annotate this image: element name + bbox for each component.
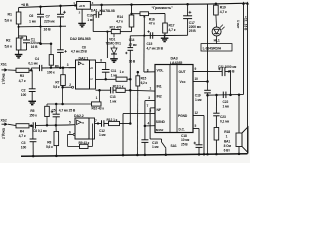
svg-text:VOL: VOL <box>157 68 165 72</box>
plus mark C1 <box>21 37 24 39</box>
svg-text:150 к: 150 к <box>29 113 37 117</box>
resistor R2 <box>16 38 21 50</box>
svg-text:100: 100 <box>21 93 27 97</box>
wire ground bus <box>21 154 248 157</box>
wire C2 top lead <box>31 70 33 89</box>
junction C23 top <box>215 94 218 97</box>
svg-text:R9 43 к: R9 43 к <box>79 141 90 145</box>
svg-text:1 мк: 1 мк <box>29 20 36 24</box>
svg-text:C11: C11 <box>111 69 117 73</box>
resistor R14 <box>129 15 134 27</box>
svg-text:Вход 1: Вход 1 <box>2 74 6 85</box>
resistor R8 <box>54 132 59 146</box>
wire R14 bottom lead <box>131 27 133 32</box>
resistor R6 <box>49 55 53 66</box>
wire C1 bottom lead <box>26 43 28 50</box>
svg-text:C2: C2 <box>21 89 25 93</box>
wire pin1 output DA2.1 <box>96 89 111 91</box>
junction C5 lower wire <box>55 124 58 127</box>
wire +12V rail right <box>208 2 248 5</box>
svg-text:47 к: 47 к <box>149 22 155 26</box>
capacitor C1 <box>23 39 30 41</box>
svg-text:TZMC-5V1: TZMC-5V1 <box>106 42 122 46</box>
wire R9 right <box>88 145 93 147</box>
wire C10 right lead <box>99 14 102 16</box>
wire pin6 down <box>67 135 69 147</box>
IC inner line 1 <box>169 65 171 133</box>
junction pin2 node <box>61 86 64 89</box>
op-amp DA2.1 symbol <box>78 62 81 65</box>
wire terminal 1 column <box>243 3 245 94</box>
capacitor C2 <box>29 88 36 90</box>
wire pin2 column down <box>62 87 64 104</box>
inverting input circle DA2.2 <box>73 134 75 136</box>
resistor on row A <box>116 77 127 81</box>
svg-text:16 В: 16 В <box>31 45 38 49</box>
wire C10 right lead down <box>101 5 103 15</box>
svg-text:R4: R4 <box>20 130 24 134</box>
capacitor C23 <box>213 112 219 114</box>
svg-text:SGND: SGND <box>156 120 166 124</box>
svg-text:6 Вт: 6 Вт <box>224 148 231 152</box>
speaker BA1 <box>236 133 242 147</box>
wire SGND stub <box>145 125 155 127</box>
wire C23 to R18 <box>215 116 217 128</box>
capacitor C11 <box>102 69 110 71</box>
resistor R9 <box>80 144 89 148</box>
op-amp DA2.1 right column <box>90 60 96 89</box>
wire NF down to bus <box>122 114 124 156</box>
wire pot right to R17 <box>149 13 166 15</box>
junction R6 top <box>50 43 53 46</box>
wire bias feedback row <box>47 103 92 105</box>
svg-text:4,7 мк 16 В: 4,7 мк 16 В <box>147 46 164 50</box>
wire pot wiper down <box>143 16 145 36</box>
IC DA3 LA4285 box <box>155 65 193 133</box>
wire C11 bottom lead <box>105 72 107 79</box>
junction SGND on IN2 column <box>144 125 147 128</box>
wire VD1 top lead <box>113 34 115 38</box>
junction pot feed <box>130 13 132 15</box>
capacitor C6 <box>37 13 44 15</box>
svg-text:R10 43 к: R10 43 к <box>92 107 105 111</box>
wire pin7 to SA1 <box>150 138 161 140</box>
wire pin5 stub DA2.2 <box>68 124 76 126</box>
wire bias column upper <box>59 26 61 50</box>
wire R7 bottom lead <box>62 86 64 88</box>
wire C7 top lead <box>60 6 62 14</box>
svg-text:4,7 к: 4,7 к <box>19 79 26 83</box>
wire pin8 stub DA2.1 <box>96 61 106 63</box>
wire down to zobel row <box>230 72 232 96</box>
op-amp DA2.2 symbol <box>77 120 82 125</box>
capacitor C3 <box>30 138 37 140</box>
junction mix row C <box>129 122 132 125</box>
wire R6 bottom lead <box>50 65 52 67</box>
wire node up to C4 <box>30 68 32 70</box>
wire bias column mid <box>59 52 61 68</box>
wire C6 top lead <box>40 7 42 15</box>
svg-text:“Громкость”: “Громкость” <box>152 6 174 10</box>
wire C17 top lead <box>187 4 189 16</box>
junction bus C19 <box>206 153 209 156</box>
wire C13 to R13 <box>113 89 116 91</box>
capacitor C13 <box>110 87 112 93</box>
junction bus NF <box>122 154 125 157</box>
wire bias rail <box>19 25 66 28</box>
capacitor C5 <box>53 113 60 115</box>
wire R8 bottom lead <box>55 146 57 156</box>
wire row B to IN1 pin <box>130 89 155 92</box>
wire wiper to VOL <box>143 36 145 72</box>
wire C1 tee <box>19 35 27 37</box>
svg-text:25 В: 25 В <box>189 29 196 33</box>
svg-text:C23: C23 <box>220 115 226 119</box>
wire C21 to down column <box>225 71 231 73</box>
capacitor C8 bias <box>57 49 64 51</box>
junction output DA2.2 <box>97 122 99 124</box>
wire Vcc column <box>207 4 209 81</box>
resistor R17 <box>163 23 168 33</box>
wire R15 to bus <box>136 86 138 155</box>
inverting input circle DA2.1 <box>72 86 74 88</box>
svg-text:C19: C19 <box>195 93 201 97</box>
wire R11 left <box>93 31 111 33</box>
svg-text:1 мк: 1 мк <box>99 133 106 137</box>
junction row A C11 <box>104 78 107 81</box>
wire DC to C18 <box>198 129 200 145</box>
potentiometer R16 <box>140 12 149 16</box>
svg-text:XS1: XS1 <box>1 62 7 66</box>
svg-text:∞: ∞ <box>82 121 85 125</box>
svg-text:5,6 к: 5,6 к <box>46 145 53 149</box>
svg-text:DA2.2: DA2.2 <box>74 114 84 118</box>
wire R18 to bus <box>215 140 217 154</box>
wire NF to left <box>123 112 155 114</box>
wire C19 to bus <box>207 93 209 154</box>
wire VD1 mid lead <box>113 46 115 49</box>
svg-text:R2: R2 <box>6 39 10 43</box>
resistor R4 <box>16 124 29 128</box>
wire speaker feed <box>238 95 240 133</box>
capacitor C7 220uF <box>57 13 64 15</box>
junction C7 bottom <box>59 25 61 27</box>
svg-text:Vcc: Vcc <box>180 80 186 84</box>
wire ground row to C17 <box>165 34 188 36</box>
svg-text:5,6 к: 5,6 к <box>5 19 13 23</box>
junction input node 2 <box>30 124 33 127</box>
svg-text:4,7 к: 4,7 к <box>116 19 123 23</box>
resistor R18 <box>214 128 219 141</box>
wire R17 top lead <box>164 14 166 24</box>
svg-text:1 мк: 1 мк <box>152 145 159 149</box>
svg-text:C6: C6 <box>29 14 33 18</box>
wire mix column lower <box>129 50 131 123</box>
plus mark C14 <box>125 52 127 54</box>
wire IN2 down to C16 <box>144 101 146 140</box>
svg-text:C14: C14 <box>129 38 135 42</box>
junction bus C3 <box>32 155 35 158</box>
junction zobel row <box>229 94 232 97</box>
wire C5 to input rail 2 <box>55 117 57 125</box>
wire row A to mix node <box>127 78 130 80</box>
svg-text:5,6 к: 5,6 к <box>5 45 13 49</box>
capacitor C4 input <box>39 65 41 71</box>
resistor R19 <box>214 5 219 15</box>
junction C6 bottom <box>39 25 41 27</box>
svg-text:IN2: IN2 <box>157 95 162 99</box>
capacitor C14 on mix column <box>128 47 134 49</box>
terminal arrows <box>242 2 245 5</box>
wire C8 to DA2.2 pin5 <box>36 124 68 126</box>
plus mark C18 <box>194 142 197 144</box>
wire C5 top lead <box>55 104 57 114</box>
op-amp DA2.2 box <box>75 118 89 139</box>
resistor R7 <box>61 75 66 86</box>
junction mix row A <box>129 78 132 81</box>
resistor R11 <box>111 30 120 34</box>
svg-text:1 к: 1 к <box>120 70 125 74</box>
svg-text:IN1: IN1 <box>157 85 162 89</box>
junction C10 <box>100 4 103 7</box>
resistor R1 <box>16 12 21 24</box>
wire pin7 output stub <box>95 123 99 125</box>
svg-text:R12 1 к: R12 1 к <box>107 118 118 122</box>
wire R17 bottom lead <box>164 33 166 35</box>
junction C5 top <box>55 103 58 106</box>
wire C19 top lead <box>207 82 209 91</box>
svg-text:100: 100 <box>21 145 27 149</box>
junction R14 on rail <box>130 3 133 6</box>
svg-text:LA4285: LA4285 <box>170 61 183 65</box>
svg-text:R11 470: R11 470 <box>110 26 122 30</box>
wire SA1 to bus <box>165 148 167 154</box>
junction pin2 column <box>61 103 64 106</box>
plus mark bias cap <box>64 50 66 52</box>
capacitor C19 <box>204 89 211 91</box>
plus mark C17 <box>189 11 192 13</box>
svg-text:R3: R3 <box>20 74 24 78</box>
svg-text:4,7 мк 25 В: 4,7 мк 25 В <box>71 50 88 54</box>
junction R19 on rail <box>215 3 218 6</box>
svg-text:OUT: OUT <box>179 70 187 74</box>
wire pin6 stub DA2.2 <box>68 134 74 136</box>
resistor R15 <box>136 76 140 86</box>
svg-text:R1: R1 <box>8 13 12 17</box>
op-amp DA2.1 box <box>76 60 90 89</box>
LED HL1 <box>212 27 221 36</box>
wire mix to C15 row <box>130 34 164 36</box>
resistor R13 <box>116 88 125 92</box>
wire R9 feedback up <box>92 124 94 147</box>
wiper arrow R16 <box>143 16 146 18</box>
svg-text:C4: C4 <box>35 57 39 61</box>
wire C18 to bus <box>198 147 200 154</box>
junction bus R8 <box>55 155 58 158</box>
wire HL1 down <box>216 36 218 44</box>
junction C19 column <box>206 94 209 97</box>
wire PGND stub <box>193 115 204 117</box>
callout box LED type <box>201 44 232 51</box>
svg-text:1 мк: 1 мк <box>87 18 94 22</box>
wire R19 to LED <box>215 15 218 27</box>
wire C1 bottom to R2 <box>19 49 27 51</box>
capacitor C16 <box>141 139 148 141</box>
svg-text:25 В: 25 В <box>181 142 188 146</box>
plus mark C15 <box>147 31 149 33</box>
wire zobel row <box>208 93 244 96</box>
svg-text:47 мк: 47 мк <box>129 43 137 47</box>
junction C7 on +8V rail <box>59 5 62 8</box>
wire C4 to DA2.1 pin3 <box>42 67 76 69</box>
svg-text:1 мк: 1 мк <box>195 98 202 102</box>
svg-text:1 мк: 1 мк <box>110 99 117 103</box>
svg-text:R6: R6 <box>55 64 59 68</box>
svg-text:ВА1: ВА1 <box>224 140 230 144</box>
wire XS2 to R4 <box>8 124 16 125</box>
wire DC stub <box>193 128 199 130</box>
IC DA1 KIA78L08 box <box>77 2 91 10</box>
wire output to C12 <box>98 123 102 125</box>
plus mark C5 <box>51 111 54 113</box>
svg-text:-U: -U <box>90 77 93 81</box>
wire R1 top lead <box>18 8 20 13</box>
junction R5 bottom <box>46 124 49 127</box>
svg-text:R14: R14 <box>117 15 123 19</box>
svg-text:IN1IN2: IN1IN2 <box>156 128 164 132</box>
svg-text:16 В: 16 В <box>44 28 52 32</box>
svg-text:PGND: PGND <box>178 114 188 118</box>
wire terminal 2 column <box>247 3 249 154</box>
svg-text:XS2: XS2 <box>1 118 7 122</box>
junction wiper node <box>143 35 145 37</box>
svg-text:C8 0,1 мк: C8 0,1 мк <box>33 129 47 133</box>
wire pin7 stub <box>150 107 155 109</box>
wire R7 top lead <box>62 68 64 75</box>
wire speaker to bus <box>238 147 240 154</box>
junction at DA1 input <box>74 4 76 6</box>
junction R15 top <box>137 71 140 74</box>
svg-text:12: 12 <box>195 111 199 115</box>
plus mark C21 <box>218 68 221 70</box>
wire R2 bottom <box>18 50 20 54</box>
junction bus R15 <box>136 154 139 157</box>
capacitor C10 <box>95 12 97 18</box>
junction mix row B <box>129 89 132 92</box>
wire C3 top lead <box>32 126 34 139</box>
ground C15-R17 <box>161 37 169 39</box>
ground DA1 <box>78 22 86 24</box>
svg-text:R19: R19 <box>220 5 226 9</box>
svg-text:8 Ом: 8 Ом <box>224 144 232 148</box>
wire pin3 stub DA2.1 <box>69 67 76 69</box>
svg-text:1: 1 <box>226 134 228 138</box>
wire R5 top lead <box>46 104 48 106</box>
svg-text:R17: R17 <box>169 24 175 28</box>
svg-text:0,1 мк: 0,1 мк <box>220 119 229 123</box>
wire R1 bottom to divider node <box>18 24 20 27</box>
svg-text:D.C.: D.C. <box>179 128 185 132</box>
wire output down to R10 <box>99 90 101 102</box>
wire C10 left lead <box>93 14 96 16</box>
junction C19 <box>206 80 209 83</box>
resistor R3 <box>16 68 29 72</box>
capacitor C21 1000uF <box>221 67 223 76</box>
wire R13 to mix node <box>125 89 130 91</box>
junction R7 top <box>62 66 65 69</box>
connector XS2 <box>2 123 5 125</box>
svg-text:+12...16 В: +12...16 В <box>244 16 248 31</box>
svg-text:C7: C7 <box>46 15 50 19</box>
svg-text:+8 В: +8 В <box>21 3 29 7</box>
junction bias on pin3 row <box>59 67 62 70</box>
capacitor C18 <box>196 144 203 146</box>
zener diode VD1 symbol <box>111 48 117 54</box>
switch SA1 <box>161 139 163 142</box>
wire R11 right to R14 <box>120 31 131 33</box>
IC inner line 2 <box>176 65 178 133</box>
junction bus PGND <box>203 153 206 156</box>
wire R5 bottom lead <box>46 117 48 126</box>
junction R11-VD1 <box>106 31 108 33</box>
wire R8 top lead <box>55 125 57 131</box>
ground C2 <box>28 100 36 102</box>
junction bus C18 <box>198 153 201 156</box>
wire +12V rail <box>90 3 207 6</box>
wire OUT to C21 <box>193 71 222 73</box>
wire R4 to node <box>29 125 33 127</box>
svg-text:6,2 к: 6,2 к <box>141 81 148 85</box>
wire C11 top lead <box>105 62 107 69</box>
svg-text:R18: R18 <box>224 130 230 134</box>
ground R2 <box>15 54 23 56</box>
wire C6 bottom lead <box>40 17 42 27</box>
wire XS1 to R3 <box>8 69 16 71</box>
junction divider node <box>18 26 20 28</box>
svg-text:DA2.1: DA2.1 <box>79 56 89 60</box>
wire pin7 down <box>149 108 151 139</box>
svg-text:R13 1 к: R13 1 к <box>113 84 124 88</box>
wire C1 top lead <box>26 36 28 40</box>
wire Vcc stub <box>193 81 208 83</box>
svg-text:0,1 мк: 0,1 мк <box>28 61 38 65</box>
svg-text:R5: R5 <box>30 109 34 113</box>
junction bus BA1 <box>238 153 241 156</box>
junction C6 on +8V rail <box>39 5 42 8</box>
junction bus SA1 <box>165 153 168 156</box>
junction R17-C15 <box>164 34 166 36</box>
ground VD1 <box>110 58 118 60</box>
wire VD1 bottom lead <box>113 54 115 59</box>
svg-text:4,7 к: 4,7 к <box>169 28 176 32</box>
wire C16 to bus <box>144 142 146 154</box>
wire to C4 <box>31 67 39 69</box>
wire C12 to R12 <box>104 123 109 125</box>
connector XS1 <box>2 69 5 71</box>
resistor R10 <box>92 102 102 106</box>
plus mark C7 <box>63 11 66 13</box>
wire R15 top lead <box>137 72 139 76</box>
wire PGND to bus <box>203 116 205 155</box>
wire C17 bottom lead <box>187 19 189 36</box>
capacitor C22 <box>222 92 224 99</box>
svg-text:R8: R8 <box>47 141 51 145</box>
svg-text:L-934SRD/H: L-934SRD/H <box>203 46 222 50</box>
wire R6 top lead <box>50 44 52 55</box>
wire to R9 <box>68 145 80 147</box>
svg-text:+8 В: +8 В <box>79 4 86 8</box>
resistor R5 <box>45 106 50 116</box>
